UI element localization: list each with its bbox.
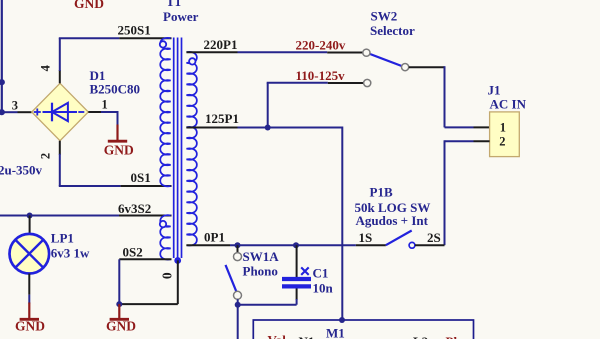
lamp LP1 xyxy=(10,234,50,274)
svg-text:6v3S2: 6v3S2 xyxy=(118,201,151,216)
junction 0P1 to SW1A xyxy=(235,242,241,248)
pin 2 of D1 xyxy=(59,141,61,155)
svg-text:J1: J1 xyxy=(488,83,501,98)
svg-text:250S1: 250S1 xyxy=(118,22,151,37)
pin 0S1 of T1 xyxy=(121,185,172,187)
plus sign in D1 xyxy=(34,109,41,116)
polarity dot of winding P1 xyxy=(189,58,195,64)
svg-text:M1: M1 xyxy=(326,325,345,339)
svg-text:Selector: Selector xyxy=(370,23,415,38)
no-ERC cross at C1 xyxy=(301,267,309,275)
pin of SW1A top xyxy=(237,245,239,252)
polarity dot of winding S1 xyxy=(160,41,166,47)
junction at 0S2 ground node xyxy=(116,301,122,307)
switch SW2 terminal circle 220 xyxy=(363,49,370,56)
switch SW2 common circle xyxy=(402,64,409,71)
svg-text:Val: Val xyxy=(268,332,287,339)
wire J1 pin2 down to P1B xyxy=(445,140,474,245)
switch SW2 lever xyxy=(370,54,402,66)
connector J1 body xyxy=(490,112,520,157)
svg-text:C1: C1 xyxy=(313,265,329,280)
wire to D1 pin 3 xyxy=(2,111,18,113)
wire left bus vertical xyxy=(1,0,3,112)
svg-text:AC IN: AC IN xyxy=(490,96,527,111)
pin 6v3S2 of T1 xyxy=(119,215,172,217)
junction on left bus xyxy=(0,79,5,85)
svg-text:110-125v: 110-125v xyxy=(296,68,346,83)
svg-text:GND: GND xyxy=(106,319,136,334)
wire SW1A bottom down xyxy=(237,299,239,339)
bridge rectifier D1 body xyxy=(32,83,89,140)
junction at M1 top pin xyxy=(339,317,345,323)
junction at T1 shield tap xyxy=(174,257,181,264)
junction to lamp LP1 xyxy=(27,213,33,219)
svg-text:P1B: P1B xyxy=(370,185,393,200)
wire 110-125v tap xyxy=(267,83,328,128)
pin 4 of D1 xyxy=(59,70,61,83)
svg-text:4: 4 xyxy=(39,64,53,71)
svg-text:Phono: Phono xyxy=(243,263,278,278)
svg-text:B250C80: B250C80 xyxy=(90,82,141,97)
svg-text:LP1: LP1 xyxy=(51,230,74,245)
svg-text:GND: GND xyxy=(15,319,45,334)
svg-text:N1: N1 xyxy=(299,334,315,339)
pin 0 of T1 (shield) xyxy=(119,260,178,304)
pin 125P1 of T1 xyxy=(186,127,237,129)
pin 250S1 of T1 xyxy=(119,37,171,39)
svg-text:2: 2 xyxy=(39,153,53,159)
wire 0S1 from D1 to T1 xyxy=(59,154,121,186)
wire C1 bottom connection xyxy=(238,289,297,305)
svg-text:GND: GND xyxy=(74,0,104,11)
junction at node to D1 pin 3 xyxy=(0,109,5,115)
wire D1 pin1 to ground xyxy=(101,111,118,125)
svg-text:6v3 1w: 6v3 1w xyxy=(51,245,90,260)
switch SW1A lever xyxy=(226,265,237,291)
svg-text:L2: L2 xyxy=(413,334,428,339)
svg-text:1S: 1S xyxy=(359,230,373,245)
diode symbol inside D1 xyxy=(43,103,78,122)
svg-text:3: 3 xyxy=(12,98,18,112)
pin 0P1 of T1 xyxy=(186,244,230,246)
transformer T1 secondary winding 250S1-0S1 xyxy=(160,38,170,186)
module M1 box xyxy=(253,320,473,339)
svg-text:1: 1 xyxy=(102,98,108,112)
wire 0S2 down to ground xyxy=(118,259,120,304)
svg-text:2u-350v: 2u-350v xyxy=(0,163,43,178)
svg-text:SW2: SW2 xyxy=(371,9,398,24)
svg-text:0P1: 0P1 xyxy=(204,230,225,245)
switch P1B contact circle xyxy=(409,242,415,248)
pin 220P1 of T1 xyxy=(186,51,237,53)
ground symbol at LP1 xyxy=(28,303,30,320)
pin 1S of P1B xyxy=(356,244,386,246)
svg-text:10n: 10n xyxy=(313,280,334,295)
pin 2S of P1B xyxy=(415,244,445,246)
svg-text:2S: 2S xyxy=(427,230,441,245)
switch SW1A terminal circle top xyxy=(234,253,242,261)
wire C1 top connection xyxy=(296,245,298,277)
minus sign in D1 xyxy=(78,111,84,113)
transformer T1 primary-side core lines xyxy=(174,38,182,260)
polarity dot of winding S2 xyxy=(160,221,166,227)
capacitor C1 xyxy=(282,279,311,286)
switch SW1A terminal circle bottom xyxy=(234,291,242,299)
pin 3 of D1 xyxy=(18,111,32,113)
transformer T1 secondary winding 6v3S2-0S2 xyxy=(160,215,170,259)
pin of LP1 top xyxy=(29,216,31,235)
svg-text:220P1: 220P1 xyxy=(204,37,238,52)
pin 2 of SW2 xyxy=(328,82,363,84)
wire 0P1 to P1B xyxy=(230,244,356,246)
wire 220P1 to SW2 xyxy=(238,51,328,53)
pin 0S2 of T1 xyxy=(119,258,171,260)
switch P1B lever xyxy=(386,231,412,246)
svg-text:GND: GND xyxy=(104,142,134,157)
junction 0P1 to C1 xyxy=(293,242,299,248)
pin 1 of D1 xyxy=(88,111,101,113)
pin 1 of J1 xyxy=(474,126,490,128)
svg-text:Agudos + Int: Agudos + Int xyxy=(356,213,429,228)
svg-text:SW1A: SW1A xyxy=(243,249,280,264)
svg-text:Power: Power xyxy=(163,9,199,24)
svg-text:Pl: Pl xyxy=(446,334,458,339)
switch SW2 terminal circle 110 xyxy=(364,79,371,86)
svg-text:0: 0 xyxy=(159,272,174,279)
pin 2 of J1 xyxy=(474,140,490,142)
svg-text:220-240v: 220-240v xyxy=(296,37,346,52)
wire 6v3S2 xyxy=(0,215,119,217)
junction 110-125v tap xyxy=(265,125,271,131)
ground symbol at 0S2 xyxy=(118,304,120,319)
svg-text:0S2: 0S2 xyxy=(123,244,143,259)
svg-text:2: 2 xyxy=(499,135,505,149)
ground symbol at D1 xyxy=(116,125,118,142)
wire LP1 to ground xyxy=(28,295,30,304)
wire 250S1 from D1 to T1 xyxy=(59,38,120,71)
junction SW1A-C1 node xyxy=(235,302,241,308)
pin 1 of SW2 xyxy=(327,52,362,54)
svg-text:0S1: 0S1 xyxy=(131,170,151,185)
pin of LP1 bottom xyxy=(28,274,30,295)
svg-text:T1: T1 xyxy=(166,0,181,9)
svg-text:1: 1 xyxy=(500,120,506,134)
svg-text:125P1: 125P1 xyxy=(205,111,239,126)
wire 125P1 across to M1 xyxy=(238,127,343,321)
wire SW2 common to J1 pin1 xyxy=(409,66,474,127)
transformer T1 primary winding 220P1-0P1 xyxy=(187,52,197,246)
